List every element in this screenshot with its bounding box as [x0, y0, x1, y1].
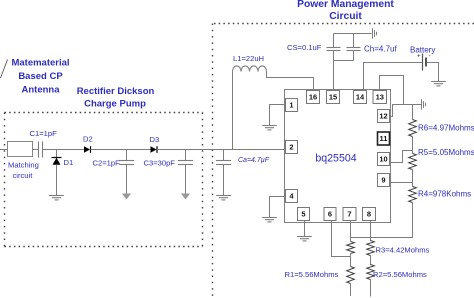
wire: pin 15 stem up to cap pair: [333, 51, 335, 91]
svg-text:5: 5: [301, 210, 305, 219]
diode D2 (series, pointing right): [83, 135, 93, 153]
svg-text:D2: D2: [83, 135, 93, 144]
capacitor C2 (shunt): [93, 150, 135, 194]
pin 13: [373, 91, 387, 104]
wire: pin 6 to mid-node of left chain: [332, 221, 351, 257]
rectifier charge-pump dotted box: [5, 113, 203, 247]
matching circuit box: [8, 142, 39, 181]
svg-text:Circuit: Circuit: [329, 11, 362, 22]
wire: left chain bottom: [350, 284, 352, 297]
svg-text:Ca=4.7µF: Ca=4.7µF: [238, 157, 270, 164]
svg-text:C3=30pF: C3=30pF: [144, 159, 176, 168]
value label R2=5.56Mohms: [373, 270, 427, 279]
value label R6=4.97Mohms: [418, 124, 474, 133]
resistor R4: [409, 187, 417, 203]
wire: D1 to ground: [56, 165, 58, 196]
svg-text:C2=1pF: C2=1pF: [93, 159, 121, 168]
wire: D2 to D3 with C2 junction: [91, 149, 151, 151]
label: Matematerial Based CP Antenna: [11, 58, 69, 96]
wire: cap pair bottom tie: [334, 51, 354, 61]
pin 11: [378, 132, 390, 145]
svg-text:R4=978Kohms: R4=978Kohms: [418, 190, 471, 199]
wire: pin 14 stem up to battery rail: [364, 63, 423, 91]
wire: D3 to pin 2 of bq25504 with C3, Ca, L1 junctions: [157, 149, 286, 151]
capacitor CS=0.1uF: [287, 34, 341, 53]
svg-text:Ch=4.7uf: Ch=4.7uf: [364, 45, 397, 54]
resistor R3: [367, 241, 375, 256]
capacitor Ca (shunt): [216, 150, 270, 196]
wire: right chain bottom: [370, 280, 372, 297]
pin 10: [378, 153, 390, 166]
svg-text:Charge Pump: Charge Pump: [84, 99, 146, 110]
battery BT1: [410, 46, 435, 71]
svg-text:Battery: Battery: [410, 46, 435, 55]
wire: matching circuit to C1: [33, 149, 39, 151]
pin 8: [363, 208, 376, 221]
resistor R5: [409, 154, 417, 170]
svg-text:Power Management: Power Management: [297, 0, 394, 10]
svg-text:2: 2: [289, 143, 293, 152]
wire: tap to pin 9: [390, 182, 413, 184]
wire: pin 7 down to bottom rail: [350, 221, 352, 242]
wire: input from left edge to matching circuit: [0, 149, 8, 151]
wire: L1 right leg to pin 16: [267, 72, 314, 91]
svg-text:10: 10: [379, 155, 387, 164]
wire: R3 to R2: [370, 256, 372, 265]
capacitor Ch=4.7uf: [347, 34, 398, 61]
svg-text:D1: D1: [64, 158, 74, 167]
ground (Ca): [216, 196, 231, 200]
svg-text:13: 13: [376, 93, 384, 102]
wire: stub down to D1: [56, 150, 58, 158]
svg-text:bq25504: bq25504: [315, 153, 356, 165]
pin 1: [286, 99, 298, 112]
ground (pin 1): [262, 126, 277, 130]
svg-text:R3=4.42Mohms: R3=4.42Mohms: [376, 246, 430, 255]
wire: cap pair top rail to ground: [334, 33, 372, 35]
pin 9: [378, 174, 390, 187]
wire: pin 8 down to bottom rail: [370, 221, 372, 241]
power management dotted box: [213, 24, 474, 298]
label: Rectifier Dickson Charge Pump: [77, 86, 155, 110]
svg-text:C1=1pF: C1=1pF: [30, 129, 58, 138]
value label R4=978Kohms: [418, 190, 471, 199]
ground (D1): [49, 196, 64, 200]
svg-text:9: 9: [381, 176, 385, 185]
svg-text:CS=0.1uF: CS=0.1uF: [287, 43, 322, 52]
pin 7: [343, 208, 356, 221]
capacitor C1 (series): [30, 129, 58, 158]
pin 15: [327, 91, 340, 104]
svg-text:D3: D3: [150, 135, 160, 144]
inductor L1: [233, 54, 267, 72]
svg-text:11: 11: [380, 134, 388, 143]
capacitor C3 (shunt): [144, 150, 194, 194]
PMIC U1 bq25504 body: [285, 90, 391, 223]
resistor (upper left, unlabeled): [347, 242, 355, 254]
ground (pin 4): [262, 218, 277, 222]
value label R3=4.42Mohms: [376, 246, 430, 255]
wire: pin 12 to divider top rail: [390, 105, 422, 117]
svg-text:R5=5.05Mohms: R5=5.05Mohms: [418, 148, 474, 157]
ground (pin 5): [297, 237, 312, 241]
wire: pin 13 up and over: [380, 76, 404, 105]
svg-text:circuit: circuit: [13, 171, 34, 180]
wire: pin 4 to ground: [270, 197, 286, 218]
ground (C3, arrow): [181, 194, 190, 200]
ground (battery): [431, 82, 446, 86]
svg-text:14: 14: [356, 93, 365, 102]
wire: left chain mid: [350, 254, 352, 267]
svg-text:R1=5.56Mohms: R1=5.56Mohms: [285, 270, 339, 279]
value label R5=5.05Mohms: [418, 148, 474, 157]
wire: pin 5 to ground: [304, 221, 306, 237]
pin 2: [286, 141, 298, 154]
svg-text:R2=5.56Mohms: R2=5.56Mohms: [373, 270, 427, 279]
diode D1 (shunt, pointing up): [52, 158, 74, 168]
wire: L1 left leg: [232, 72, 234, 150]
svg-text:Rectifier Dickson: Rectifier Dickson: [77, 86, 155, 97]
wire: R5 to R4: [412, 170, 414, 187]
wire: tap to pin 10: [390, 151, 413, 163]
svg-text:16: 16: [309, 93, 317, 102]
svg-text:6: 6: [328, 210, 332, 219]
svg-text:Based CP: Based CP: [18, 71, 63, 82]
svg-text:R6=4.97Mohms: R6=4.97Mohms: [418, 124, 474, 133]
svg-text:8: 8: [367, 210, 371, 219]
pin 6: [324, 208, 336, 221]
antenna lead-in line: [1, 60, 8, 79]
diode D3 (series, pointing right): [150, 135, 160, 153]
svg-text:1: 1: [289, 101, 293, 110]
pin 16: [307, 91, 320, 104]
wire: R6 to R5: [412, 137, 414, 154]
ground (C2, arrow): [122, 194, 131, 200]
svg-text:L1=22uH: L1=22uH: [233, 54, 264, 63]
svg-text:12: 12: [379, 112, 387, 121]
svg-text:7: 7: [347, 210, 351, 219]
resistor R1: [347, 267, 355, 284]
value label R1=5.56Mohms: [285, 270, 339, 279]
wire: R4 down to bottom rail: [351, 203, 413, 238]
resistor R6: [409, 120, 417, 137]
svg-text:Matching: Matching: [8, 161, 39, 170]
wire: C1 to D2 with D1 junction: [43, 149, 85, 151]
wire: divider chain top: [412, 105, 414, 120]
svg-text:Matematerial: Matematerial: [11, 58, 69, 69]
resistor R2: [367, 265, 375, 280]
wire: pin 1 to ground: [270, 105, 286, 126]
ground (divider rail, right-facing): [422, 99, 426, 110]
svg-text:15: 15: [329, 93, 337, 102]
pin 12: [378, 110, 390, 123]
wire: battery to ground: [427, 63, 439, 82]
pin 5: [298, 208, 310, 221]
pin 4: [286, 190, 298, 203]
ground (cap rail, right-facing): [373, 28, 377, 39]
title: Power Management Circuit: [297, 0, 394, 22]
pin 14: [354, 91, 367, 104]
svg-text:Antenna: Antenna: [22, 85, 61, 96]
